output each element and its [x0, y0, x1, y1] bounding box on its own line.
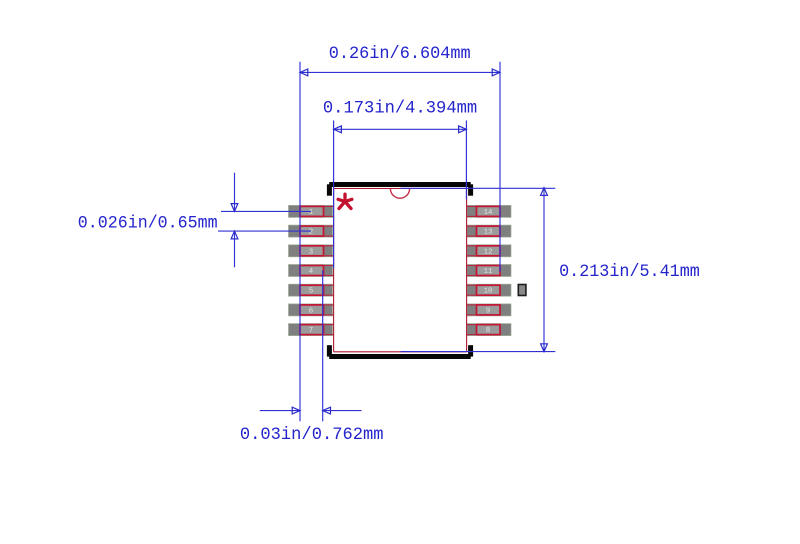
svg-text:14: 14 — [484, 209, 493, 217]
dim line 0.03in right arrow — [323, 410, 362, 412]
svg-text:7: 7 — [309, 327, 313, 335]
dim extension line y=188.3 — [401, 187, 556, 189]
svg-text:2: 2 — [309, 229, 313, 237]
pitch line pin2 — [218, 230, 311, 232]
pad pin 7 — [289, 324, 334, 336]
svg-text:10: 10 — [484, 288, 493, 296]
svg-text:8: 8 — [486, 327, 490, 335]
pad pin 3 — [289, 245, 334, 257]
package body outline — [334, 189, 467, 352]
top silkscreen bar — [327, 182, 473, 196]
dim extension line x=333.6 — [333, 121, 335, 269]
pad pin 14 — [467, 205, 511, 217]
pad pin 10 — [467, 284, 511, 296]
svg-text:6: 6 — [309, 307, 313, 315]
anchor square right of pin 10 — [518, 285, 526, 296]
svg-text:12: 12 — [484, 248, 493, 256]
svg-text:9: 9 — [486, 307, 490, 315]
svg-text:0.173in/4.394mm: 0.173in/4.394mm — [323, 99, 477, 119]
dim extension line x=466.4 — [465, 121, 467, 200]
pad pin 13 — [467, 225, 511, 237]
pad pin 9 — [467, 304, 511, 316]
svg-text:4: 4 — [309, 268, 314, 276]
pad pin 11 — [467, 265, 511, 277]
svg-text:1: 1 — [309, 209, 314, 217]
pin 1 marker asterisk — [338, 194, 352, 208]
pad pin 12 — [467, 245, 511, 257]
dim line 0.213in — [543, 188, 545, 352]
pin-1 notch arc — [390, 189, 409, 199]
dim line 0.03in left arrow — [260, 410, 300, 412]
pitch dim verticals — [234, 173, 236, 211]
svg-text:0.26in/6.604mm: 0.26in/6.604mm — [329, 44, 471, 64]
svg-text:13: 13 — [484, 229, 493, 237]
dim extension line x=300 — [299, 62, 301, 422]
pad pin 8 — [467, 324, 511, 336]
pitch line pin1 — [221, 210, 311, 212]
svg-text:11: 11 — [484, 268, 493, 276]
svg-text:3: 3 — [309, 248, 313, 256]
pad pin 1 — [289, 205, 334, 217]
svg-text:0.03in/0.762mm: 0.03in/0.762mm — [240, 425, 384, 445]
dim extension x=322.7 — [322, 271, 324, 422]
dim extension line y=351.6 — [401, 351, 556, 353]
pad pin 5 — [289, 284, 334, 296]
bottom silkscreen bar — [327, 345, 473, 359]
dim extension line x=500 — [499, 62, 501, 272]
dim line 0.26in — [300, 71, 500, 73]
pad pin 2 — [289, 225, 334, 237]
svg-text:0.026in/0.65mm: 0.026in/0.65mm — [78, 214, 218, 234]
dim line 0.173in — [334, 128, 467, 130]
svg-text:0.213in/5.41mm: 0.213in/5.41mm — [559, 262, 700, 282]
svg-text:5: 5 — [309, 288, 313, 296]
pad pin 4 — [289, 265, 334, 277]
pad pin 6 — [289, 304, 334, 316]
